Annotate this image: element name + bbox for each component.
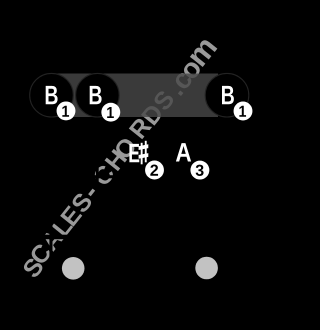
barre band behind the three B dots: [54, 74, 218, 118]
fret line 3 (black, cuts watermark): [28, 235, 250, 240]
note label A: [176, 143, 191, 161]
string line 1 (black, cuts watermark): [49, 117, 52, 297]
note label B 1: [46, 86, 58, 104]
finger badge 1 on second B: [101, 103, 120, 122]
note dot B left: [30, 73, 74, 117]
fret line 2 (black, cuts watermark): [28, 175, 250, 178]
watermark SCALES-CHORDS.com (diagonal, on black): [21, 38, 217, 279]
finger badge 2 on E#: [145, 161, 164, 180]
string line 2 (black, cuts watermark): [96, 117, 99, 297]
note dot B middle: [76, 73, 120, 117]
sharp sign of E#: [139, 141, 149, 165]
fret marker dot right: [195, 257, 218, 280]
note label B 2: [90, 86, 102, 104]
note dot B right: [205, 73, 249, 117]
finger badge 3 on A: [190, 161, 209, 180]
fret marker dot left: [62, 257, 85, 280]
finger badge 1 on third B: [234, 102, 253, 121]
note label B 3: [222, 86, 234, 104]
note label E: [129, 144, 139, 162]
finger badge 1 on first B: [57, 101, 76, 120]
watermark portion crossing the band (faint): [21, 38, 217, 279]
